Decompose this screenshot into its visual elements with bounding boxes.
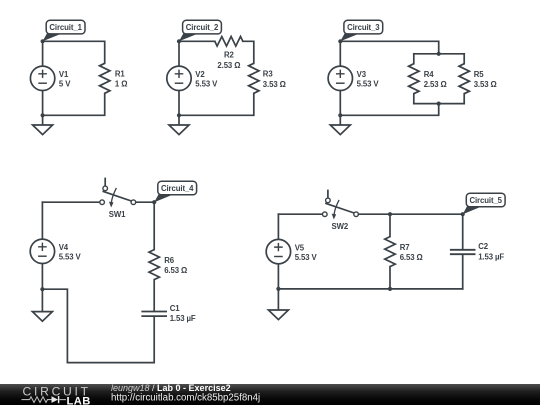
wire circuit 3 top rail	[340, 41, 438, 54]
switch SW1	[100, 178, 136, 208]
wire parallel bottom bus	[414, 103, 464, 105]
resistor R6	[149, 250, 159, 280]
logo resistor-diode squiggle	[22, 396, 67, 403]
junction dot circuit 1 bottom node	[41, 113, 45, 117]
ground circuit 1	[33, 115, 53, 134]
svg-text:2.53 Ω: 2.53 Ω	[424, 80, 447, 89]
svg-text:V4: V4	[59, 243, 69, 252]
svg-text:V5: V5	[295, 243, 305, 252]
wire switch SW2 to R7 node	[359, 213, 391, 215]
svg-text:http://circuitlab.com/ck85bp25: http://circuitlab.com/ck85bp25f8n4j	[111, 393, 260, 404]
junction dot circuit 5 R7 bottom node	[388, 287, 392, 291]
resistor R5	[459, 64, 469, 94]
wire circuit 3 bottom rail	[340, 104, 438, 116]
wire circuit 5 top rail right	[390, 214, 463, 249]
svg-text:2.53 Ω: 2.53 Ω	[217, 61, 240, 70]
voltage source V4	[30, 239, 54, 263]
wire circuit 2 top rail right	[243, 41, 254, 63]
wire V3 top lead	[339, 41, 341, 66]
junction dot parallel top junction	[437, 52, 441, 56]
svg-text:C2: C2	[478, 242, 489, 251]
wire V4 bottom lead	[41, 264, 43, 290]
junction dot circuit 4 bottom node	[40, 287, 44, 291]
resistor R7	[385, 237, 395, 267]
wire V2 top lead	[178, 41, 180, 66]
junction dot circuit 5 C2 top node	[461, 212, 465, 216]
voltage source V2	[167, 66, 191, 90]
resistor R3	[249, 63, 259, 93]
voltage source V3	[328, 66, 352, 90]
wire R3 bottom lead	[179, 93, 254, 115]
wire circuit 5 top rail to switch	[278, 213, 322, 215]
svg-text:6.53 Ω: 6.53 Ω	[164, 266, 187, 275]
wire circuit 5 bottom rail	[278, 288, 462, 290]
svg-text:5.53 V: 5.53 V	[295, 253, 318, 262]
wire R1 bottom lead	[43, 93, 105, 115]
svg-text:R1: R1	[115, 70, 126, 79]
svg-text:LAB: LAB	[67, 395, 91, 405]
svg-text:R2: R2	[224, 51, 235, 60]
svg-text:5 V: 5 V	[59, 80, 71, 89]
wire circuit 4 top rail to switch	[42, 201, 99, 203]
wire V3 bottom lead	[339, 91, 341, 116]
node label Circuit_4	[154, 181, 196, 202]
svg-text:Circuit_3: Circuit_3	[347, 23, 380, 32]
ground circuit 4	[32, 289, 52, 321]
wire switch SW1 to node	[136, 201, 154, 203]
voltage source V1	[30, 66, 54, 90]
svg-text:6.53 Ω: 6.53 Ω	[400, 253, 423, 262]
wire V1 bottom lead	[42, 91, 44, 116]
svg-text:3.53 Ω: 3.53 Ω	[474, 80, 497, 89]
wire R7 bottom lead	[389, 267, 391, 289]
wire parallel top bus	[414, 53, 464, 55]
footer bar	[0, 384, 540, 405]
node label Circuit_5	[463, 193, 505, 214]
capacitor C1	[141, 312, 167, 317]
wire R5 top lead	[463, 54, 465, 64]
svg-text:R6: R6	[164, 256, 175, 265]
wire C1 bottom lead and return	[42, 289, 154, 362]
svg-text:SW1: SW1	[109, 210, 126, 219]
svg-text:5.53 V: 5.53 V	[357, 80, 380, 89]
svg-text:V3: V3	[357, 70, 367, 79]
junction dot circuit 1 top node	[41, 39, 45, 43]
svg-text:5.53 V: 5.53 V	[195, 80, 218, 89]
capacitor C2	[450, 250, 476, 254]
wire V5 bottom lead	[277, 264, 279, 289]
svg-text:Circuit_4: Circuit_4	[161, 184, 194, 193]
svg-text:5.53 V: 5.53 V	[59, 253, 82, 262]
wire V1 top lead	[42, 41, 44, 66]
node label Circuit_2	[179, 20, 221, 41]
ground circuit 2	[169, 115, 189, 134]
wire R5 bottom lead	[463, 94, 465, 104]
junction dot circuit 5 bottom node	[276, 287, 280, 291]
wire R4 bottom lead	[413, 94, 415, 104]
svg-text:C1: C1	[170, 304, 181, 313]
junction dot circuit 5 R7 top node	[388, 212, 392, 216]
wire R4 top lead	[413, 54, 415, 64]
junction dot circuit 2 bottom node	[177, 113, 181, 117]
voltage source V5	[266, 239, 290, 263]
svg-text:1.53 µF: 1.53 µF	[170, 314, 196, 323]
svg-text:1.53 µF: 1.53 µF	[478, 252, 504, 261]
wire V5 top lead	[277, 214, 279, 239]
junction dot parallel bottom junction	[437, 102, 441, 106]
node label Circuit_3	[340, 20, 382, 41]
resistor R1	[100, 63, 110, 93]
svg-text:Circuit_2: Circuit_2	[186, 23, 219, 32]
svg-text:Circuit_5: Circuit_5	[469, 196, 502, 205]
svg-text:V1: V1	[59, 70, 69, 79]
svg-text:R4: R4	[424, 70, 435, 79]
wire R6 to C1	[153, 280, 155, 311]
wire R6 top lead	[153, 202, 155, 249]
wire V2 bottom lead	[178, 91, 180, 116]
svg-text:1 Ω: 1 Ω	[115, 80, 127, 89]
svg-text:leungw18 / Lab 0 - Exercise2: leungw18 / Lab 0 - Exercise2	[111, 383, 231, 393]
wire V4 top lead	[41, 202, 43, 239]
wire R7 top lead	[389, 214, 391, 236]
junction dot circuit 4 switch node	[152, 200, 156, 204]
resistor R4	[409, 64, 419, 94]
junction dot circuit 3 top node	[338, 39, 342, 43]
svg-text:V2: V2	[195, 70, 205, 79]
svg-text:3.53 Ω: 3.53 Ω	[263, 80, 286, 89]
ground circuit 3	[330, 115, 350, 134]
wire circuit 1 top rail	[43, 41, 105, 63]
svg-text:Circuit_1: Circuit_1	[49, 23, 82, 32]
wire circuit 2 top rail left	[179, 40, 215, 42]
junction dot circuit 2 top node	[177, 39, 181, 43]
svg-text:R5: R5	[474, 70, 485, 79]
junction dot circuit 3 bottom node	[338, 113, 342, 117]
svg-text:R3: R3	[263, 70, 274, 79]
resistor R2	[215, 37, 243, 47]
svg-text:SW2: SW2	[332, 222, 349, 231]
svg-text:R7: R7	[400, 243, 410, 252]
node label Circuit_1	[43, 20, 85, 41]
switch SW2	[323, 190, 359, 220]
ground circuit 5	[268, 289, 288, 320]
wire C2 bottom lead	[462, 255, 464, 289]
